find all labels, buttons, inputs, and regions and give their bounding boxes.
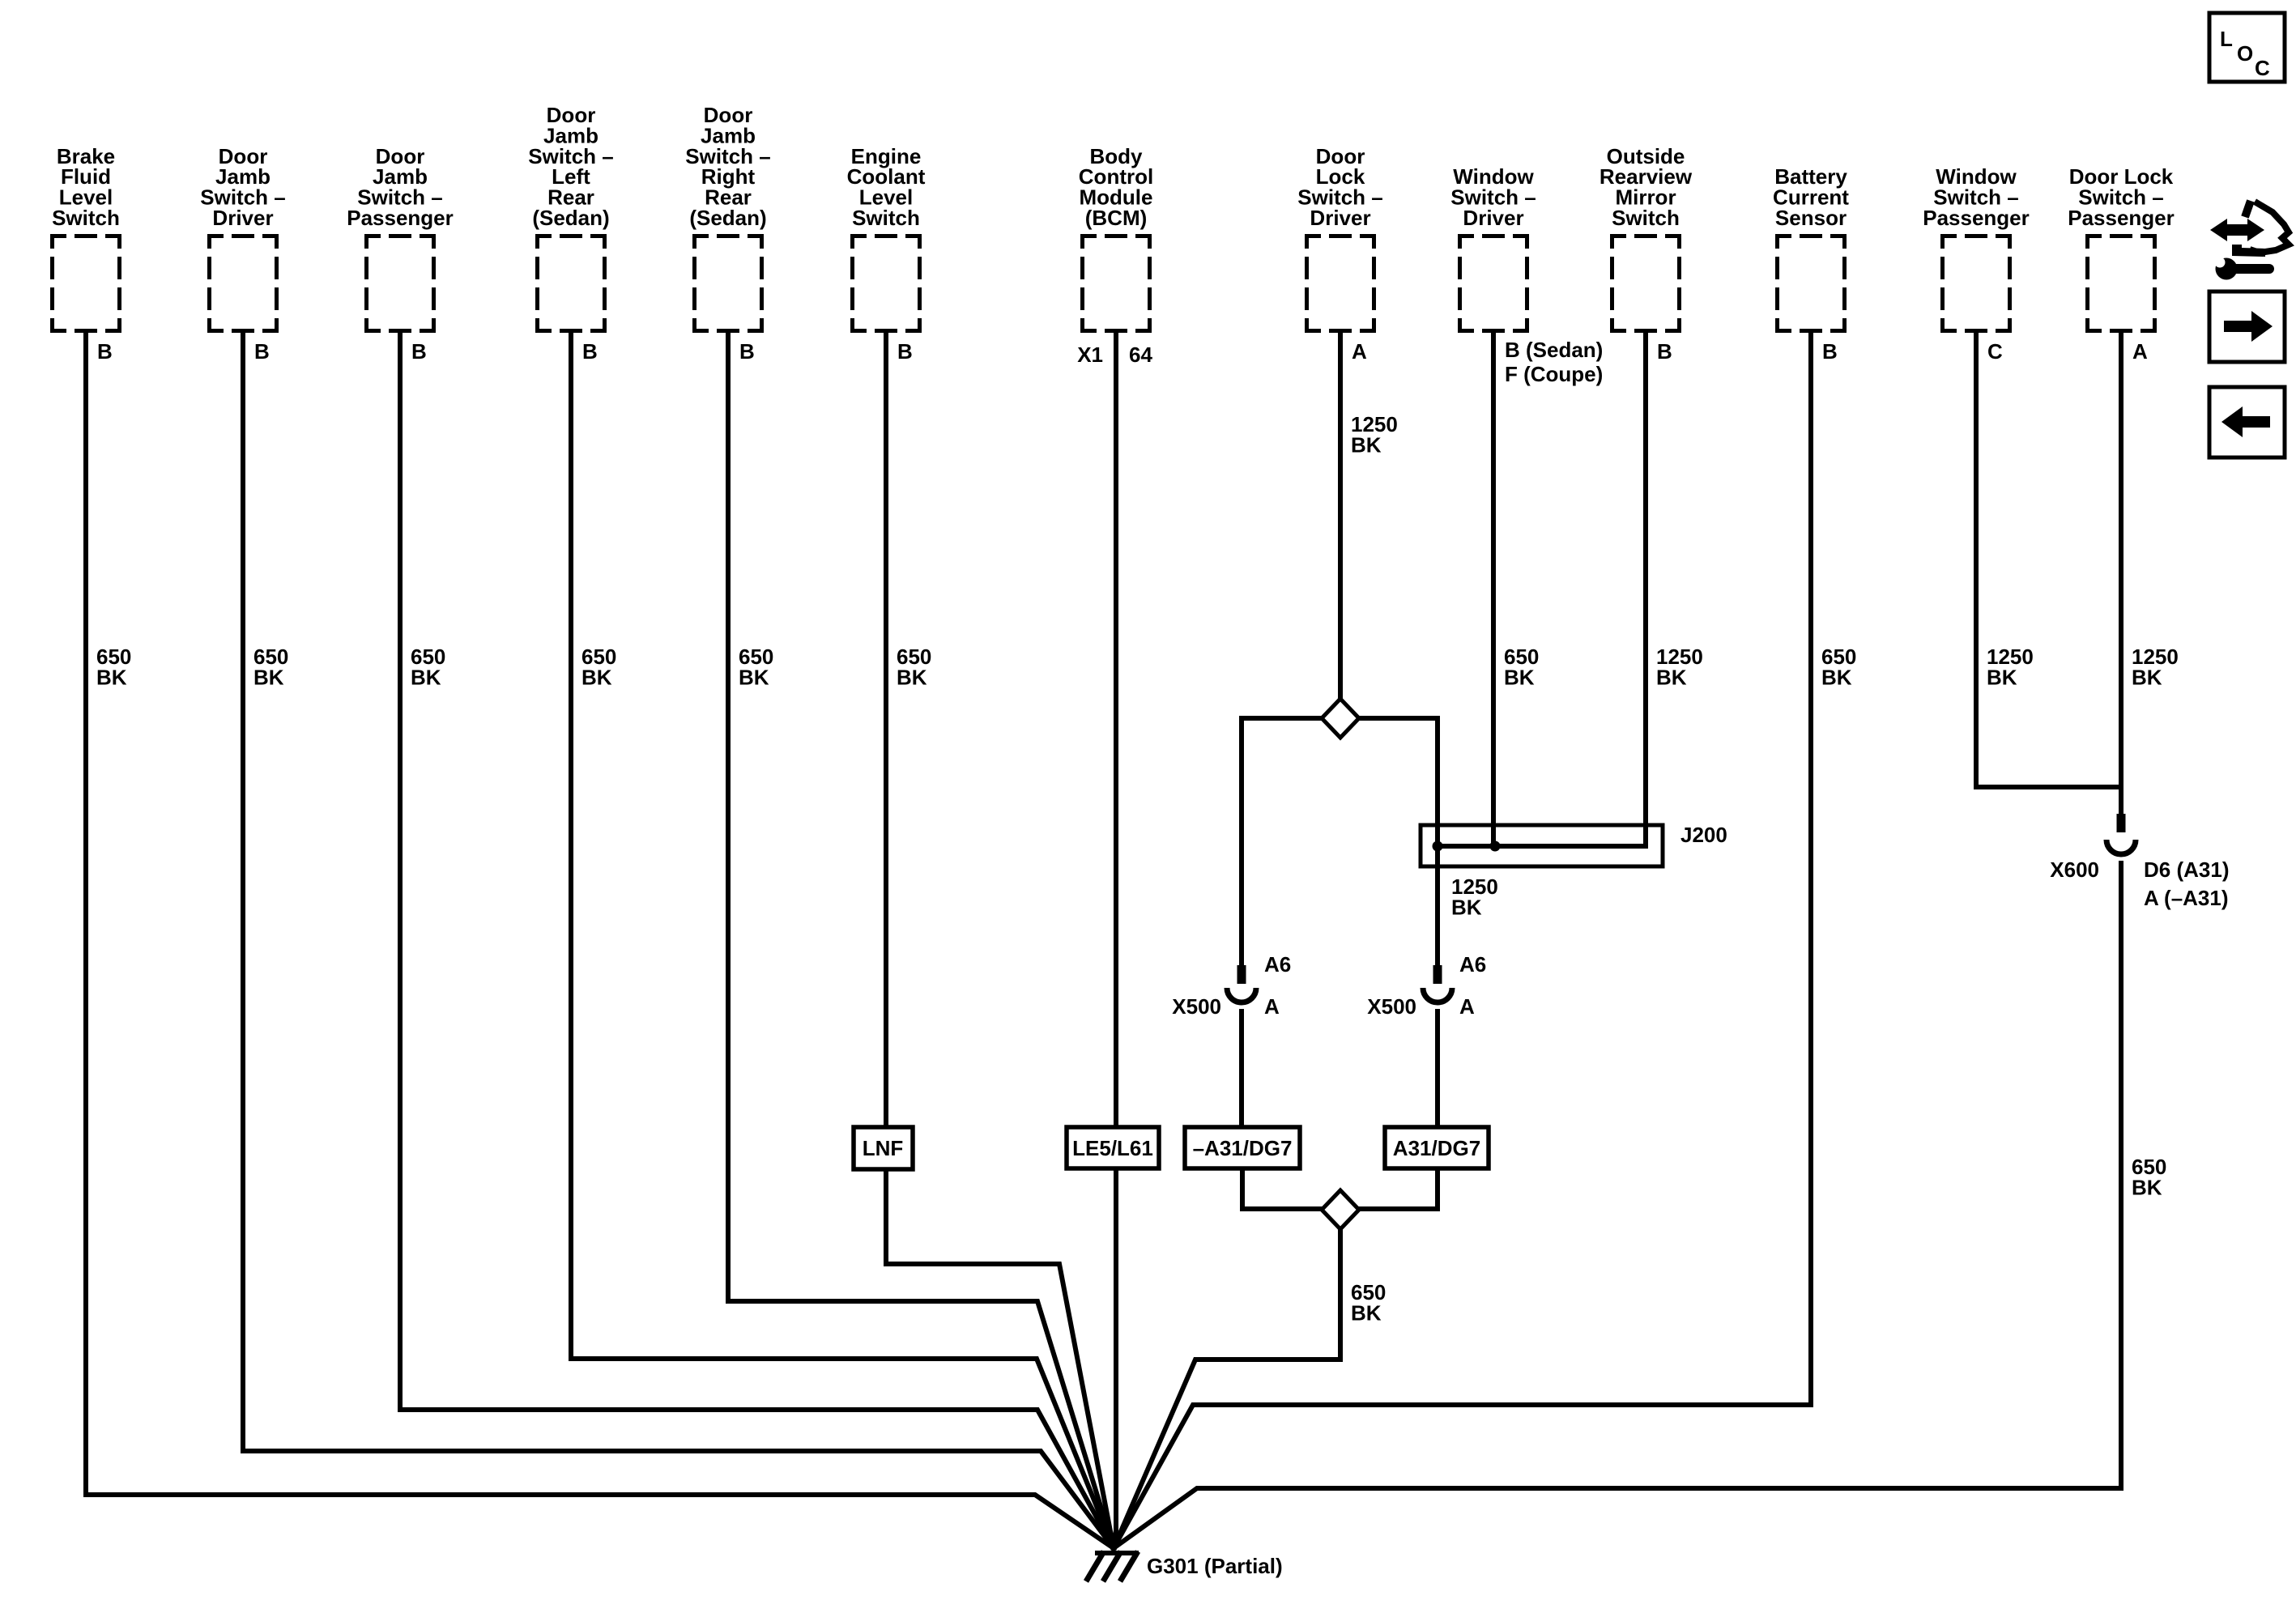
pin B (Sedan) / F (Coupe) of Window Switch - Driver bbox=[1505, 338, 1603, 386]
pin X1 64 of BCM bbox=[1077, 343, 1152, 367]
svg-text:Passenger: Passenger bbox=[1923, 206, 2030, 230]
wire right branch through J200 to X500 pin A6 bbox=[1435, 718, 1440, 965]
svg-text:BK: BK bbox=[1504, 665, 1535, 689]
svg-text:(BCM): (BCM) bbox=[1085, 206, 1148, 230]
svg-text:B: B bbox=[411, 339, 427, 364]
wire X500 A to A31/DG7 option bbox=[1435, 1011, 1440, 1127]
junction box J200 bbox=[1421, 823, 1727, 866]
svg-text:A: A bbox=[1352, 339, 1367, 364]
svg-text:B: B bbox=[1822, 339, 1838, 364]
wire 650 BK Engine Coolant Level Switch to LNF option bbox=[884, 333, 888, 1127]
junction dot J200 right bbox=[1490, 841, 1501, 852]
svg-text:A: A bbox=[2132, 339, 2148, 364]
svg-text:64: 64 bbox=[1129, 343, 1152, 367]
svg-text:B (Sedan): B (Sedan) bbox=[1505, 338, 1603, 362]
pin B of Engine Coolant Level Switch bbox=[897, 339, 913, 364]
svg-text:F (Coupe): F (Coupe) bbox=[1505, 362, 1603, 386]
component Window Switch - Passenger bbox=[1923, 164, 2030, 333]
svg-text:BK: BK bbox=[1351, 432, 1382, 457]
svg-text:O: O bbox=[2237, 41, 2253, 66]
wire 650 BK Window Switch Driver to J200 bbox=[1491, 333, 1496, 846]
svg-text:Driver: Driver bbox=[1310, 206, 1370, 230]
option box LNF bbox=[854, 1127, 913, 1169]
svg-text:B: B bbox=[739, 339, 755, 364]
svg-text:LNF: LNF bbox=[863, 1136, 904, 1160]
svg-text:B: B bbox=[897, 339, 913, 364]
wire 650 BK Brake Fluid Level Switch to G301 bbox=[86, 333, 1114, 1548]
svg-text:(Sedan): (Sedan) bbox=[689, 206, 766, 230]
connector X500 (right) pin A6/A bbox=[1367, 952, 1486, 1019]
svg-text:(Sedan): (Sedan) bbox=[532, 206, 609, 230]
wire label 650 BK col 3 bbox=[411, 645, 445, 689]
connector X500 (left) pin A6/A bbox=[1172, 952, 1291, 1019]
arrow box right (continued on next page) bbox=[2209, 291, 2285, 362]
svg-text:Switch: Switch bbox=[1612, 206, 1680, 230]
wire 650 BK splice to G301 bbox=[1114, 1229, 1340, 1548]
svg-text:–A31/DG7: –A31/DG7 bbox=[1193, 1136, 1293, 1160]
wire label 1250 BK Door Lock Switch Passenger bbox=[2132, 645, 2179, 689]
wire 1250 BK Door Lock Switch Driver to splice bbox=[1338, 333, 1343, 700]
svg-text:X600: X600 bbox=[2050, 857, 2099, 882]
splice S1 diamond bbox=[1322, 699, 1359, 738]
pin B of Door Jamb Switch - Left Rear bbox=[582, 339, 598, 364]
svg-text:B: B bbox=[254, 339, 270, 364]
wire BCM X1-64 to LE5/L61 option bbox=[1114, 333, 1118, 1127]
svg-text:BK: BK bbox=[1351, 1300, 1382, 1325]
wire label 650 BK col 6 bbox=[897, 645, 931, 689]
component Window Switch - Driver bbox=[1450, 164, 1536, 333]
svg-text:BK: BK bbox=[1821, 665, 1852, 689]
svg-text:D6 (A31): D6 (A31) bbox=[2144, 857, 2229, 882]
svg-text:Sensor: Sensor bbox=[1775, 206, 1847, 230]
svg-text:X1: X1 bbox=[1077, 343, 1103, 367]
svg-text:A6: A6 bbox=[1264, 952, 1291, 977]
component Engine Coolant Level Switch bbox=[847, 144, 926, 333]
connector X600 pin D6/A bbox=[2050, 814, 2229, 910]
wire J200 internal bus bbox=[1438, 844, 1646, 849]
svg-text:BK: BK bbox=[2132, 1175, 2162, 1199]
wire label 650 BK right side X600 branch bbox=[2132, 1155, 2166, 1199]
option box -A31/DG7 bbox=[1185, 1127, 1300, 1168]
wire A31/DG7 option to splice bbox=[1435, 1168, 1440, 1209]
svg-text:B: B bbox=[1657, 339, 1672, 364]
svg-text:C: C bbox=[2255, 56, 2270, 80]
svg-text:BK: BK bbox=[739, 665, 769, 689]
component Body Control Module (BCM) bbox=[1079, 144, 1153, 333]
wire left branch to X500 pin A6 bbox=[1239, 718, 1244, 965]
wire 650 BK Door Jamb Switch Driver to G301 bbox=[243, 333, 1114, 1548]
component Door Lock Switch - Driver bbox=[1297, 144, 1382, 333]
svg-text:BK: BK bbox=[253, 665, 284, 689]
svg-text:BK: BK bbox=[96, 665, 127, 689]
wire label 650 BK Battery Current Sensor bbox=[1821, 645, 1856, 689]
svg-text:BK: BK bbox=[897, 665, 927, 689]
pin B of Door Jamb Switch - Right Rear bbox=[739, 339, 755, 364]
component Door Jamb Switch - Driver bbox=[200, 144, 285, 333]
component Door Jamb Switch - Passenger bbox=[347, 144, 454, 333]
svg-text:Passenger: Passenger bbox=[347, 206, 454, 230]
pin A of Door Lock Switch - Passenger bbox=[2132, 339, 2148, 364]
splice S2 diamond bbox=[1322, 1190, 1359, 1229]
wire label 650 BK col 2 bbox=[253, 645, 288, 689]
wire label 650 BK below splice S2 bbox=[1351, 1280, 1386, 1325]
svg-text:B: B bbox=[97, 339, 113, 364]
svg-text:BK: BK bbox=[411, 665, 441, 689]
wire 650 BK Door Jamb Switch Passenger to G301 bbox=[400, 333, 1114, 1548]
wire LE5/L61 option to G301 bbox=[1114, 1168, 1116, 1548]
wire 1250 BK Door Lock Switch Passenger to X600 bbox=[2119, 333, 2123, 814]
svg-text:A (–A31): A (–A31) bbox=[2144, 886, 2229, 910]
ground G301 (Partial) bbox=[1086, 1551, 1283, 1581]
component Door Jamb Switch - Right Rear (Sedan) bbox=[685, 103, 770, 333]
wire 650 BK LNF option to G301 bbox=[886, 1169, 1114, 1548]
wire label 1250 BK Outside Rearview Mirror Switch bbox=[1656, 645, 1703, 689]
svg-text:BK: BK bbox=[1451, 895, 1482, 919]
wire 1250 BK Window Switch Passenger to X600 junction bbox=[1976, 333, 2121, 787]
svg-text:A31/DG7: A31/DG7 bbox=[1393, 1136, 1480, 1160]
svg-text:Switch: Switch bbox=[52, 206, 120, 230]
option box A31/DG7 bbox=[1385, 1127, 1489, 1168]
wire label 650 BK col 5 bbox=[739, 645, 773, 689]
component Battery Current Sensor bbox=[1773, 164, 1849, 333]
LOC legend box bbox=[2209, 13, 2285, 82]
pin B of Battery Current Sensor bbox=[1822, 339, 1838, 364]
wire 650 BK Battery Current Sensor to G301 bbox=[1114, 333, 1811, 1548]
junction dot J200 left bbox=[1433, 841, 1443, 852]
svg-text:Driver: Driver bbox=[1463, 206, 1523, 230]
wire -A31/DG7 option to splice bbox=[1240, 1168, 1245, 1209]
wire label 1250 BK Window Switch Passenger bbox=[1987, 645, 2034, 689]
component Brake Fluid Level Switch bbox=[50, 144, 121, 333]
svg-text:LE5/L61: LE5/L61 bbox=[1072, 1136, 1153, 1160]
wire 650 BK X600 to G301 bbox=[1114, 863, 2121, 1548]
pin B of Door Jamb Switch - Passenger bbox=[411, 339, 427, 364]
option box LE5/L61 bbox=[1067, 1127, 1159, 1168]
wire label 650 BK col 4 bbox=[581, 645, 616, 689]
wire label 1250 BK Door Lock Switch Driver bbox=[1351, 412, 1398, 457]
svg-text:X500: X500 bbox=[1367, 994, 1416, 1019]
svg-text:L: L bbox=[2220, 27, 2233, 51]
svg-text:G301 (Partial): G301 (Partial) bbox=[1147, 1554, 1283, 1578]
wire splice branch horizontal bbox=[1242, 716, 1438, 721]
svg-text:A6: A6 bbox=[1459, 952, 1486, 977]
pin C of Window Switch - Passenger bbox=[1987, 339, 2003, 364]
svg-text:Switch: Switch bbox=[852, 206, 920, 230]
wire X500 A to -A31/DG7 option bbox=[1239, 1011, 1244, 1127]
wire 650 BK Door Jamb Switch Right Rear to G301 bbox=[728, 333, 1114, 1548]
arrow box left (continued from previous page) bbox=[2209, 387, 2285, 457]
component Door Lock Switch - Passenger bbox=[2068, 164, 2175, 333]
svg-text:C: C bbox=[1987, 339, 2003, 364]
pin B of Door Jamb Switch - Driver bbox=[254, 339, 270, 364]
svg-text:A: A bbox=[1459, 994, 1475, 1019]
wire splice merge horizontal bbox=[1242, 1206, 1438, 1211]
wire 1250 BK Outside Rearview Mirror Switch to J200 bbox=[1643, 333, 1648, 846]
svg-text:Driver: Driver bbox=[212, 206, 273, 230]
svg-text:A: A bbox=[1264, 994, 1280, 1019]
wire 650 BK Door Jamb Switch Left Rear to G301 bbox=[571, 333, 1114, 1548]
svg-text:BK: BK bbox=[581, 665, 612, 689]
svg-text:BK: BK bbox=[2132, 665, 2162, 689]
component Door Jamb Switch - Left Rear (Sedan) bbox=[528, 103, 613, 333]
pin B of Outside Rearview Mirror Switch bbox=[1657, 339, 1672, 364]
wire label 1250 BK below J200 bbox=[1451, 874, 1498, 919]
svg-text:X500: X500 bbox=[1172, 994, 1221, 1019]
wire label 650 BK col 1 bbox=[96, 645, 131, 689]
pin A of Door Lock Switch - Driver bbox=[1352, 339, 1367, 364]
svg-text:BK: BK bbox=[1656, 665, 1687, 689]
wire label 650 BK Window Switch Driver bbox=[1504, 645, 1539, 689]
pin B of Brake Fluid Level Switch bbox=[97, 339, 113, 364]
svg-text:J200: J200 bbox=[1680, 823, 1727, 847]
svg-text:Passenger: Passenger bbox=[2068, 206, 2175, 230]
svg-text:BK: BK bbox=[1987, 665, 2017, 689]
component Outside Rearview Mirror Switch bbox=[1600, 144, 1693, 333]
diagnostic aid icon (hand with wrench and double arrow) bbox=[2210, 201, 2289, 280]
svg-text:B: B bbox=[582, 339, 598, 364]
